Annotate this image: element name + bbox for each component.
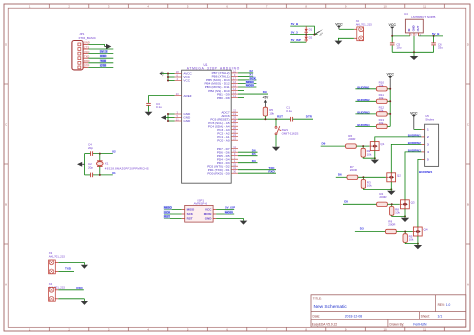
svg-text:GND: GND <box>183 119 191 123</box>
svg-text:0.1u: 0.1u <box>286 109 292 113</box>
svg-text:Date:: Date: <box>313 315 321 319</box>
wire R7 to Q2 gate <box>358 176 386 178</box>
wire R11 to rail <box>387 100 390 102</box>
wire JP1 TXD <box>88 57 113 59</box>
net label MOSI <box>246 84 254 87</box>
capacitor C4 <box>90 151 92 156</box>
svg-text:X1: X1 <box>112 171 116 175</box>
ground below SW1 <box>272 147 280 151</box>
resistor R3 labels <box>367 180 372 187</box>
ground below Q4 <box>414 245 422 249</box>
svg-text:10: 10 <box>384 5 388 9</box>
svg-text:D1: D1 <box>309 28 313 32</box>
wire BUDRW1 to R10 <box>355 88 376 90</box>
power flag VCC at pullups <box>387 73 395 89</box>
capacitor C5 labels <box>396 42 401 49</box>
svg-text:PC0 - A0: PC0 - A0 <box>217 138 230 142</box>
svg-text:New Schematic: New Schematic <box>314 304 348 310</box>
capacitor C1 <box>290 117 292 122</box>
wire R2 to source <box>363 157 375 158</box>
wire R9 to Q4 gate <box>396 231 412 233</box>
wire MISO <box>238 82 256 84</box>
junction rail R11 <box>389 100 391 102</box>
wire D9 to R6 <box>321 145 346 147</box>
wire TXD from U1 <box>238 169 276 171</box>
wire C6 bottom <box>433 45 435 52</box>
svg-text:2018-12-08: 2018-12-08 <box>345 315 362 319</box>
ground at X2 <box>335 41 343 45</box>
net label SCK at ISP <box>164 211 170 214</box>
net label SCK <box>249 77 255 80</box>
svg-text:IN: IN <box>407 29 411 32</box>
wire ISP GND <box>216 217 243 219</box>
wire Q2 drain to U5 pin3 <box>391 144 421 172</box>
wire D10 stub <box>238 90 244 92</box>
svg-text:SCK: SCK <box>164 210 171 214</box>
wire ISP MISO <box>164 208 182 210</box>
svg-text:D: D <box>467 43 469 47</box>
junction SW1 branch <box>275 118 277 120</box>
capacitor C5 <box>390 42 395 44</box>
wire 5V_B tie <box>290 26 314 34</box>
resistor R8 <box>390 207 394 216</box>
wire BUDRW4 to R13 <box>355 125 376 127</box>
power flag +5V at U1 <box>159 71 164 76</box>
connector JP1 pins <box>83 41 90 68</box>
svg-text:B: B <box>467 203 469 207</box>
capacitor C2 <box>90 173 92 178</box>
U4 pin stubs <box>410 33 419 36</box>
wire X4 pin1 RXD <box>58 289 84 291</box>
net label 5V_3 <box>100 50 108 53</box>
ground below U4 <box>410 52 419 60</box>
wire JP1 DTR <box>88 66 113 68</box>
junction gate Q2 <box>362 176 364 178</box>
wire VCC to U5 pin1 <box>414 128 422 130</box>
svg-text:20p: 20p <box>88 166 93 170</box>
wire R10 to rail <box>387 88 390 90</box>
ground right of ISP <box>240 218 248 224</box>
svg-text:OUT: OUT <box>416 25 420 31</box>
U5 pin stubs <box>422 129 425 159</box>
wire JP1 RXD <box>88 62 113 64</box>
net label MISO <box>246 80 254 83</box>
resistor R8 labels <box>395 207 400 214</box>
ground below Q1 <box>371 160 379 164</box>
junction source Q2 <box>390 188 392 190</box>
resistor R5 <box>263 107 267 116</box>
svg-text:11: 11 <box>423 5 426 9</box>
wire crystal top <box>85 153 113 155</box>
U4 pin names <box>407 25 420 31</box>
ground below Q3 <box>401 218 409 222</box>
svg-text:BUDRW1: BUDRW1 <box>357 85 370 89</box>
svg-text:A: A <box>5 283 7 287</box>
svg-text:D2: D2 <box>309 35 313 39</box>
svg-text:D3: D3 <box>252 159 256 163</box>
junction VCC2 <box>167 80 169 82</box>
resistor R2 <box>361 148 365 157</box>
resistor R11 labels <box>379 93 385 100</box>
resistor R5 labels <box>269 108 274 116</box>
svg-text:FeriHUN: FeriHUN <box>413 322 427 326</box>
svg-text:BUDRW1: BUDRW1 <box>408 133 421 137</box>
resistor R10 <box>376 87 387 91</box>
U5 pin numbers <box>427 128 429 162</box>
svg-text:GND: GND <box>411 25 415 31</box>
svg-text:A: A <box>467 283 469 287</box>
svg-text:Shules: Shules <box>425 117 434 121</box>
svg-text:BUDRW3: BUDRW3 <box>408 148 421 152</box>
svg-text:OMIT-1162S: OMIT-1162S <box>282 131 299 135</box>
terminal X3 body <box>49 260 56 274</box>
svg-text:2: 2 <box>427 135 429 139</box>
crystal X1 labels <box>105 161 149 170</box>
svg-text:D: D <box>5 43 7 47</box>
svg-text:Q1: Q1 <box>380 142 384 146</box>
ground flag left of U1 <box>161 115 166 120</box>
resistor R9 labels <box>388 219 396 226</box>
wire X4 pin2 to ground <box>58 298 84 300</box>
crystal X1 <box>97 154 104 175</box>
wire R6 to Q1 gate <box>356 145 369 147</box>
svg-text:Q4: Q4 <box>424 228 428 232</box>
svg-text:+5V: +5V <box>263 96 270 100</box>
wire R8 to source <box>392 215 405 216</box>
net label DTR <box>100 64 106 67</box>
svg-text:33u: 33u <box>438 45 443 49</box>
svg-text:5V_ISP: 5V_ISP <box>291 38 301 42</box>
resistor R7 labels <box>350 165 358 172</box>
net label MOSI at ISP <box>225 211 233 214</box>
terminal X2 body <box>357 27 364 41</box>
wire D9 from U1 <box>238 93 268 95</box>
svg-text:200R: 200R <box>379 195 387 199</box>
ground flag left of crystal <box>77 162 85 167</box>
svg-text:10k: 10k <box>367 152 372 156</box>
svg-text:5V_3: 5V_3 <box>291 30 298 34</box>
wire gate to R5 <box>404 232 406 234</box>
svg-text:20p: 20p <box>88 146 93 150</box>
wire R5 to reset node <box>264 116 266 119</box>
junction source Q3 <box>404 215 406 217</box>
wire XTAL2 <box>238 72 253 74</box>
wire JP1 GND <box>88 43 104 45</box>
wire D5 from U1 <box>238 155 258 157</box>
svg-text:3: 3 <box>427 143 429 147</box>
svg-text:10: 10 <box>384 327 388 331</box>
wire X2 pin2 to ground <box>338 38 354 40</box>
resistor R5 <box>403 234 407 243</box>
svg-text:FTDI_BASIC: FTDI_BASIC <box>79 36 97 40</box>
wire 5V_3 tie <box>290 34 317 36</box>
diode D2 <box>304 35 308 43</box>
svg-text:10k: 10k <box>409 238 414 242</box>
transistor Q1 <box>369 142 384 151</box>
svg-text:Sheet:: Sheet: <box>421 315 430 319</box>
wire X3 pin1 to ground <box>58 261 84 263</box>
power flag VCC at X2 <box>335 22 343 29</box>
terminal X4 body <box>49 287 56 301</box>
ground below C3 <box>145 112 153 116</box>
svg-text:U4: U4 <box>404 12 408 16</box>
wire C5 top <box>391 36 393 43</box>
switch SW1 labels <box>282 128 299 135</box>
wire ISP VCC <box>216 208 234 210</box>
svg-text:D5: D5 <box>252 152 256 156</box>
svg-text:200R: 200R <box>348 137 356 141</box>
wire 5V_ISP tie <box>290 41 306 43</box>
frame zone ticks sides <box>4 43 470 287</box>
junction crystal bottom <box>99 174 101 176</box>
wire C3 to ground <box>148 106 150 112</box>
junction GND3 <box>167 120 169 122</box>
svg-text:BUDRW3: BUDRW3 <box>357 110 370 114</box>
wire ISP SCK <box>164 213 182 215</box>
power flag +5V reset pullup <box>263 96 270 107</box>
junction gate Q4 <box>404 231 406 233</box>
svg-text:RXD: RXD <box>100 54 107 58</box>
svg-text:BUDRW4: BUDRW4 <box>419 170 432 174</box>
wire Q1 source to ground <box>374 151 376 160</box>
svg-text:D9: D9 <box>263 90 267 94</box>
wire BUDRW3 to R12 <box>355 113 376 115</box>
svg-text:GND: GND <box>205 217 213 221</box>
svg-text:11: 11 <box>423 327 426 331</box>
wire Q3 source to ground <box>404 209 406 218</box>
transistor Q4 <box>413 227 428 236</box>
capacitor C3 labels <box>156 102 162 109</box>
terminal X2 pin stubs <box>354 29 357 38</box>
svg-text:C: C <box>5 123 7 127</box>
svg-text:MOSI: MOSI <box>204 212 212 216</box>
junction gate Q1 <box>362 145 364 147</box>
junction GND1 <box>167 113 169 115</box>
resistor R13 labels <box>379 118 385 125</box>
svg-text:1/1: 1/1 <box>438 315 443 319</box>
power flag VCC at U4 <box>389 23 397 36</box>
wire U4 GND down <box>413 36 415 52</box>
svg-text:1: 1 <box>427 128 429 132</box>
svg-text:Q2: Q2 <box>397 173 401 177</box>
wire gate to R3 <box>362 177 364 179</box>
ISP1 pin names <box>187 208 213 221</box>
wire R4 to Q3 gate <box>387 203 399 205</box>
svg-text:5: 5 <box>427 158 429 162</box>
junction R5/reset <box>264 118 266 120</box>
svg-text:REV: 1.0: REV: 1.0 <box>438 303 451 307</box>
capacitor C6 labels <box>438 42 443 49</box>
svg-text:5V_3: 5V_3 <box>100 50 107 54</box>
svg-text:DTR: DTR <box>306 115 313 119</box>
svg-text:4: 4 <box>427 150 429 154</box>
svg-text:10k: 10k <box>269 111 274 115</box>
capacitor C3 <box>146 102 151 104</box>
connector ISP1 body <box>185 205 213 222</box>
net label RST at ISP <box>164 215 170 218</box>
wire JP1 VCC <box>88 53 113 55</box>
svg-text:10u: 10u <box>396 45 401 49</box>
wire R5 to source <box>405 243 418 244</box>
wire BUDRW2 to R11 <box>355 100 376 102</box>
wire Q4 drain to U5 pin5 <box>418 159 422 227</box>
svg-text:D3: D3 <box>360 227 364 231</box>
svg-text:X2: X2 <box>112 150 116 154</box>
U1 left pin stubs and numbers <box>175 70 182 122</box>
resistor R13 <box>376 124 387 128</box>
svg-text:SCK: SCK <box>187 212 194 216</box>
wire D8 stub <box>238 97 244 99</box>
ground below Q2 <box>387 191 395 195</box>
switch SW1 <box>275 126 281 135</box>
net label RXD <box>100 54 106 57</box>
svg-text:49S28.8MAZ0PF20PPMRCHS: 49S28.8MAZ0PF20PPMRCHS <box>105 166 149 170</box>
junction AVCC <box>167 73 169 75</box>
svg-text:RST: RST <box>187 217 193 221</box>
U4 pin numbers <box>411 34 422 36</box>
terminal X3 pin stubs <box>55 262 58 271</box>
wire R13 to rail <box>387 125 390 127</box>
wire ISP RST <box>164 217 182 219</box>
wire VCC to X2 pin1 <box>339 28 354 30</box>
wire Q1 drain to U5 pin2 <box>375 137 422 142</box>
transistor Q3 <box>400 200 415 209</box>
junction source Q4 <box>417 243 419 245</box>
wire RXD from U1 <box>238 172 276 174</box>
svg-text:200R: 200R <box>350 168 358 172</box>
wire R3 to source <box>363 188 391 189</box>
wire SW1 to ground <box>275 135 277 147</box>
wire MOSI <box>238 86 256 88</box>
wire D6 from U1 <box>238 151 258 153</box>
op-amp U1 body <box>182 70 232 183</box>
svg-text:5V_B: 5V_B <box>291 22 299 26</box>
svg-text:RXD: RXD <box>268 169 275 173</box>
resistor R10 labels <box>379 81 385 88</box>
wire R12 to rail <box>387 113 390 115</box>
junction rail R10 <box>389 88 391 90</box>
wire reset to SW1 <box>275 119 277 126</box>
resistor R2 labels <box>367 149 372 156</box>
resistor R6 labels <box>348 134 356 141</box>
junction C5 top <box>391 35 393 37</box>
net label MISO at ISP <box>164 206 172 209</box>
wire JP1 CTS <box>88 48 113 50</box>
wire SCK <box>238 79 256 81</box>
svg-text:VCC: VCC <box>335 22 343 26</box>
svg-text:LM7805CT NOPB: LM7805CT NOPB <box>411 15 435 19</box>
wire Q3 drain to U5 pin4 <box>405 152 422 200</box>
svg-text:EasyEDA V5.9.22: EasyEDA V5.9.22 <box>312 322 338 326</box>
ground flag right of JP1 <box>105 44 112 49</box>
wire U4 ground rail <box>392 51 433 53</box>
junction rail R12 <box>389 113 391 115</box>
wire D3 from U1 <box>238 162 258 164</box>
junction source Q1 <box>374 157 376 159</box>
svg-text:TXD: TXD <box>65 266 72 270</box>
ISP1 pin stubs <box>182 209 216 218</box>
svg-text:RST: RST <box>164 215 170 219</box>
svg-text:BUDRW4: BUDRW4 <box>357 123 370 127</box>
junction VCC1 <box>167 76 169 78</box>
svg-text:AKL701_215: AKL701_215 <box>356 23 373 27</box>
junction C6 top <box>433 35 435 37</box>
wire X3 pin2 TXD <box>58 270 74 272</box>
wire +5V to AVCC/VCC <box>162 74 175 81</box>
transistor Q2 <box>386 173 401 182</box>
U1 right pin stubs and numbers <box>231 69 238 173</box>
svg-text:D6: D6 <box>338 173 342 177</box>
wire C6 top <box>433 36 435 43</box>
wire pullup VCC rail <box>389 89 391 127</box>
svg-text:D5: D5 <box>344 200 348 204</box>
capacitor C2 labels <box>88 162 93 170</box>
regulator U4 body <box>405 19 423 33</box>
svg-text:RST: RST <box>277 115 283 119</box>
wire U1 GND pins <box>166 114 175 121</box>
svg-text:RXD: RXD <box>76 286 83 290</box>
wire Q2 source to ground <box>390 182 392 191</box>
svg-text:VCC: VCC <box>205 208 212 212</box>
wire D3 to R9 <box>355 231 386 233</box>
U1 right pin names <box>204 71 229 175</box>
resistor R12 labels <box>379 106 385 113</box>
svg-text:PD0 (RXD) - D0: PD0 (RXD) - D0 <box>207 171 229 175</box>
wire C1 to DTR <box>293 118 313 120</box>
resistor R5 labels <box>409 235 414 242</box>
svg-text:BUDRW2: BUDRW2 <box>408 141 421 145</box>
junction crystal top <box>99 153 101 155</box>
svg-text:TXD: TXD <box>100 59 107 63</box>
wire crystal bottom <box>85 174 113 176</box>
ground at X3 <box>81 262 88 268</box>
wire U4 OUT to 5V_B <box>419 35 444 37</box>
terminal X4 pin stubs <box>55 290 58 299</box>
wire gate to R2 <box>362 146 364 148</box>
ground at X4 <box>81 299 88 305</box>
U1 left pin names <box>183 72 192 124</box>
wire AREF to C3 <box>149 96 175 103</box>
svg-text:MOSI: MOSI <box>246 83 254 87</box>
title block frame <box>311 295 466 327</box>
resistor R4 <box>377 202 388 206</box>
svg-text:X1: X1 <box>105 161 109 165</box>
svg-text:BUDRW2: BUDRW2 <box>357 98 370 102</box>
wire D5 to R4 <box>343 203 377 205</box>
net label TXD <box>100 59 106 62</box>
wire Q4 source to ground <box>417 236 419 245</box>
connector U5 body <box>425 124 439 166</box>
svg-text:AKL701_215: AKL701_215 <box>49 255 66 259</box>
resistor R12 <box>376 112 387 116</box>
wire gate to R8 <box>391 204 393 206</box>
svg-text:VCC: VCC <box>183 79 190 83</box>
capacitor C1 labels <box>286 106 292 113</box>
svg-text:10k: 10k <box>367 184 372 188</box>
junction tie1 <box>305 34 307 36</box>
svg-text:+5V: +5V <box>161 71 165 76</box>
capacitor C6 <box>431 42 436 44</box>
svg-text:D9: D9 <box>322 141 326 145</box>
wire VCC to U4 IN <box>392 35 410 37</box>
wire RESET to reset circuit <box>238 118 291 120</box>
connector JP1 body <box>72 41 83 70</box>
svg-text:DTR: DTR <box>100 63 107 67</box>
wire C5 bottom <box>391 45 393 52</box>
power flag +5V tie <box>314 29 324 37</box>
svg-text:200R: 200R <box>388 222 396 226</box>
wire crystal left rail <box>84 154 86 175</box>
